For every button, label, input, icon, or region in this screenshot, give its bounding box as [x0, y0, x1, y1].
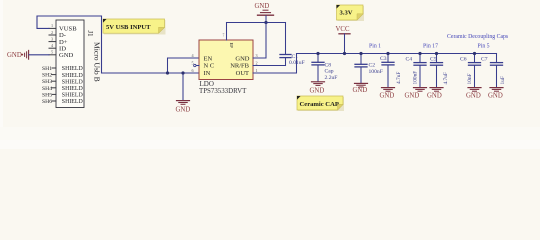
svg-text:100nF: 100nF: [413, 71, 419, 85]
pin 5 GND stub: [49, 54, 56, 56]
svg-text:GND: GND: [405, 93, 420, 100]
svg-text:SHIELD: SHIELD: [62, 99, 84, 105]
wire drop to GND from IN wire: [182, 73, 184, 100]
svg-text:GND: GND: [466, 93, 481, 100]
svg-text:GND: GND: [310, 88, 325, 95]
svg-text:GND: GND: [7, 52, 22, 59]
capacitor C2 100nF: [355, 52, 383, 83]
svg-text:C7: C7: [481, 56, 488, 62]
svg-text:5: 5: [191, 60, 193, 65]
svg-text:SH2: SH2: [42, 73, 52, 79]
svg-text:NR/FB: NR/FB: [230, 63, 249, 70]
svg-text:C5: C5: [430, 56, 437, 62]
svg-text:Pin 1: Pin 1: [369, 44, 381, 50]
svg-text:J1: J1: [86, 31, 93, 37]
ground under C5: [430, 88, 443, 92]
svg-text:Ceramic Decoupling Caps: Ceramic Decoupling Caps: [447, 34, 509, 40]
wire C1 to NR/FB pin: [253, 65, 286, 67]
ground under C3: [382, 88, 395, 92]
EP pin stub to top gnd rail: [226, 23, 228, 41]
svg-text:SH5: SH5: [42, 92, 52, 98]
svg-text:GND: GND: [59, 52, 74, 59]
svg-text:C6: C6: [460, 56, 467, 62]
junction on IN wire at EN riser: [166, 71, 169, 74]
svg-text:SHIELD: SHIELD: [62, 66, 84, 72]
svg-text:EP: EP: [229, 43, 234, 49]
svg-text:C3: C3: [380, 56, 387, 62]
note Ceramic CAP: [297, 96, 344, 111]
svg-text:GND: GND: [380, 93, 395, 100]
svg-text:VCC: VCC: [336, 26, 350, 33]
svg-text:Ceramic CAP: Ceramic CAP: [300, 101, 339, 108]
svg-text:2.2uF: 2.2uF: [325, 75, 338, 81]
SH1-SH6 shield pin designators: [42, 66, 52, 105]
wire OUT pin to VCC rail riser: [253, 54, 297, 74]
pin 3 D+ stub: [49, 41, 56, 43]
svg-text:SH1: SH1: [42, 66, 52, 72]
svg-text:GND: GND: [488, 93, 503, 100]
capacitor C6 10nF: [460, 52, 481, 87]
wire gnd rail over regulator: [227, 22, 286, 24]
svg-text:3.3V: 3.3V: [340, 9, 353, 16]
capacitor C1 0.01uF (NR/FB to GND): [285, 23, 287, 55]
svg-text:GND: GND: [255, 3, 270, 10]
svg-text:5: 5: [51, 50, 53, 55]
connector J1 Micro USB B body: [56, 20, 84, 108]
shield pin stubs SH1-SH6: [52, 68, 56, 101]
svg-text:GND: GND: [176, 107, 191, 114]
earth ground under IN wire: [177, 101, 190, 105]
N/C pin stub with no-connect circle: [197, 65, 200, 67]
svg-text:4.7uF: 4.7uF: [396, 72, 402, 84]
svg-text:GND: GND: [427, 93, 442, 100]
svg-text:SHIELD: SHIELD: [62, 73, 84, 79]
svg-text:3: 3: [51, 36, 53, 41]
svg-text:Micro Usb B: Micro Usb B: [93, 42, 102, 82]
junction at GND drop: [181, 71, 184, 74]
svg-text:SH4: SH4: [42, 86, 52, 92]
svg-text:Cap: Cap: [325, 69, 334, 75]
background sheet: [0, 0, 540, 149]
ground under C8: [312, 82, 325, 86]
svg-text:3: 3: [255, 53, 257, 58]
power port VCC: [336, 26, 351, 54]
wire rail down to GND pin of LDO: [253, 23, 266, 59]
svg-text:Pin 5: Pin 5: [478, 44, 490, 50]
connector pin numbers 1-5: [51, 23, 54, 54]
connector pin names: [59, 26, 77, 59]
note 3.3V: [337, 5, 365, 21]
svg-text:SH3: SH3: [42, 79, 52, 85]
svg-text:7: 7: [223, 34, 225, 38]
svg-text:SHIELD: SHIELD: [62, 79, 84, 85]
capacitor C8 2.2uF: [312, 52, 337, 81]
ground under C6: [468, 88, 481, 92]
svg-text:5V USB INPUT: 5V USB INPUT: [106, 24, 151, 31]
capacitor C7 1uF (at rail end): [481, 54, 506, 88]
pin 2 D- stub: [49, 34, 56, 36]
ground under C4: [414, 88, 427, 92]
svg-text:6: 6: [191, 68, 193, 73]
wire VCC output rail: [297, 53, 497, 55]
power port GND (top): [255, 3, 274, 15]
SHIELD pin names: [62, 66, 84, 105]
svg-text:1: 1: [51, 23, 53, 28]
ground under C2: [355, 83, 368, 87]
svg-text:2: 2: [255, 60, 257, 65]
note 5V USB INPUT: [103, 19, 166, 35]
svg-text:IN: IN: [204, 70, 211, 77]
svg-text:SHIELD: SHIELD: [62, 93, 84, 99]
op-amp style LDO body U? TPS73533: [199, 40, 253, 80]
svg-text:SH6: SH6: [42, 99, 52, 105]
svg-text:1: 1: [255, 68, 257, 73]
wire gnd stem to rail: [265, 16, 267, 23]
svg-text:C8: C8: [325, 63, 332, 69]
capacitor C3 4.7uF: [380, 52, 402, 87]
ground under C7: [490, 88, 503, 92]
junction gnd stem / rail: [264, 21, 267, 24]
junction VCC stem on rail: [343, 52, 346, 55]
wire VUSB pin up and over to regulator: [37, 16, 199, 73]
LDO right pin numbers 3 2 1: [255, 53, 257, 73]
svg-text:2: 2: [51, 30, 53, 35]
svg-text:N C: N C: [204, 63, 215, 70]
svg-text:GND: GND: [235, 55, 249, 62]
svg-text:OUT: OUT: [236, 70, 249, 77]
ground symbol (left, chassis GND on connector GND pin): [7, 50, 29, 59]
pin 1 VUSB stub: [49, 27, 56, 29]
svg-text:Pin 17: Pin 17: [423, 44, 438, 50]
svg-text:GND: GND: [353, 87, 368, 94]
capacitor C4 100nF: [406, 52, 427, 87]
LDO pin names: [204, 55, 215, 77]
svg-text:1uF: 1uF: [500, 76, 506, 84]
LDO left pin numbers 4 5 6: [191, 53, 194, 73]
pin 4 ID stub: [49, 47, 56, 49]
svg-text:TPS73533DRVT: TPS73533DRVT: [199, 88, 247, 95]
svg-text:EN: EN: [204, 55, 213, 62]
wire GND symbol to connector GND pin: [29, 54, 49, 56]
svg-text:4.7uF: 4.7uF: [443, 72, 449, 84]
svg-text:10nF: 10nF: [467, 73, 473, 84]
svg-text:SHIELD: SHIELD: [62, 86, 84, 92]
capacitor C5 4.7uF: [430, 52, 449, 87]
svg-text:C4: C4: [406, 56, 413, 62]
wire EN riser from IN net: [168, 58, 200, 73]
svg-text:LDO: LDO: [200, 80, 214, 88]
svg-text:C2: C2: [369, 62, 376, 68]
svg-text:100nF: 100nF: [369, 69, 383, 75]
